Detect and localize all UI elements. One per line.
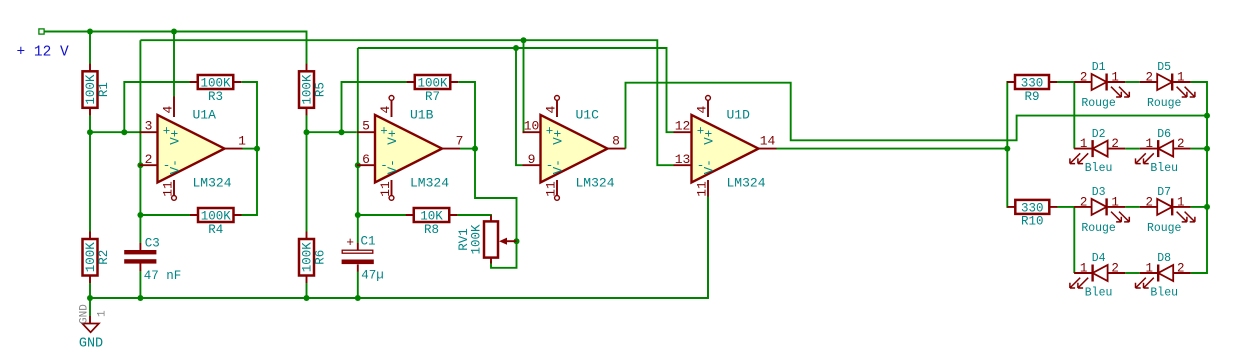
wire R10 left drop: [1007, 149, 1008, 207]
LED D4 Bleu: [1070, 252, 1125, 299]
svg-text:1: 1: [1111, 195, 1119, 209]
resistor R7 100K: [407, 75, 459, 104]
svg-text:Rouge: Rouge: [1147, 97, 1182, 110]
svg-text:Bleu: Bleu: [1085, 286, 1113, 299]
svg-text:2: 2: [1111, 137, 1119, 151]
junction ground/R2/GND: [87, 295, 93, 301]
junction R8/C1 node: [355, 212, 361, 218]
svg-text:11: 11: [378, 181, 393, 197]
LED D3 Rouge: [1074, 186, 1129, 235]
wire D1-D5 row1: [1125, 81, 1140, 83]
node +12V unconnected-end square: [39, 29, 44, 34]
svg-text:5: 5: [362, 119, 370, 134]
svg-text:+: +: [346, 235, 354, 250]
junction R1/R2/pin3: [87, 129, 93, 135]
LED D1 Rouge: [1074, 61, 1129, 110]
svg-text:D1: D1: [1092, 61, 1106, 74]
svg-text:6: 6: [362, 152, 370, 167]
svg-text:R6: R6: [314, 250, 328, 265]
svg-text:1: 1: [1080, 137, 1088, 151]
svg-text:4: 4: [544, 106, 559, 114]
junction net rail B to U1C pin9: [513, 45, 519, 51]
svg-text:100K: 100K: [84, 242, 98, 273]
svg-text:R2: R2: [97, 250, 111, 265]
wire U1B output pin7: [460, 148, 475, 150]
svg-text:2: 2: [1177, 262, 1185, 276]
wire R8 right to RV1 top: [457, 215, 491, 216]
svg-text:D6: D6: [1157, 128, 1171, 141]
svg-text:1: 1: [1111, 71, 1119, 85]
svg-text:R3: R3: [208, 90, 223, 104]
svg-text:U1B: U1B: [410, 107, 434, 122]
wire U1D output to R9/R10 node: [777, 148, 1008, 150]
junction RV1 wiper: [514, 238, 520, 244]
wire rail B drop to U1C pin9: [516, 48, 523, 165]
junction U1B output: [472, 146, 478, 152]
wire R6 bottom: [306, 283, 308, 298]
wire LED right vertical bus: [1191, 82, 1207, 273]
svg-text:330: 330: [1021, 201, 1044, 215]
svg-text:R8: R8: [424, 223, 439, 237]
svg-text:R5: R5: [314, 82, 328, 97]
junction R7/pin5: [339, 129, 345, 135]
resistor R4 100K: [190, 208, 242, 237]
svg-text:V+: V+: [703, 130, 717, 145]
svg-text:100K: 100K: [417, 77, 448, 91]
svg-text:7: 7: [456, 134, 464, 149]
svg-text:D7: D7: [1157, 186, 1171, 199]
svg-text:C3: C3: [145, 236, 160, 250]
svg-text:+ 12 V: + 12 V: [17, 45, 70, 61]
svg-text:100K: 100K: [84, 74, 98, 105]
svg-text:D5: D5: [1157, 61, 1171, 74]
wire R10 to D3: [1057, 206, 1074, 208]
op-amp U1D LM324: [674, 96, 777, 197]
wire R2 top: [89, 132, 91, 231]
svg-text:13: 13: [675, 152, 691, 167]
svg-text:LM324: LM324: [193, 175, 232, 190]
wire U1A pin2 node vertical / net rail A: [140, 40, 673, 165]
wire pin2 node down to C3: [139, 40, 141, 243]
wire +12V top rail to R5 top: [44, 32, 306, 65]
resistor R3 100K: [190, 75, 242, 104]
junction +12V/R1: [87, 29, 93, 35]
junction U1A output: [254, 146, 260, 152]
svg-text:Rouge: Rouge: [1081, 222, 1116, 235]
junction ground/C1: [355, 295, 361, 301]
svg-text:330: 330: [1021, 77, 1044, 91]
svg-text:1: 1: [238, 134, 246, 149]
wire R7 right to U1B output: [458, 82, 475, 149]
svg-text:R9: R9: [1024, 90, 1039, 104]
svg-text:1: 1: [1177, 71, 1185, 85]
junction ground/C3: [137, 295, 143, 301]
svg-text:V+: V+: [169, 130, 183, 145]
resistor R9 330: [1007, 75, 1057, 104]
svg-text:1: 1: [97, 310, 109, 317]
svg-text:2: 2: [145, 152, 153, 167]
wire R9 to D1: [1057, 81, 1074, 83]
svg-text:2: 2: [1145, 71, 1153, 85]
LED D6 Bleu: [1136, 128, 1191, 175]
svg-text:V-: V-: [169, 159, 183, 174]
wire D3-D7 row3: [1125, 206, 1140, 208]
svg-text:V-: V-: [552, 159, 566, 174]
resistor R10 330: [1007, 200, 1057, 229]
wire D6 to bus: [1191, 148, 1207, 150]
wire R2 bottom to ground rail: [89, 283, 91, 298]
svg-text:100K: 100K: [301, 74, 315, 105]
junction pin2: [137, 162, 143, 168]
svg-text:2: 2: [1111, 262, 1119, 276]
wire R4 left: [140, 214, 190, 216]
op-amp U1A LM324: [140, 97, 247, 201]
svg-text:Bleu: Bleu: [1150, 162, 1178, 175]
svg-text:9: 9: [528, 152, 536, 167]
svg-text:4: 4: [161, 106, 176, 114]
svg-text:U1A: U1A: [193, 107, 217, 122]
svg-text:LM324: LM324: [576, 175, 615, 190]
wire R9 left drop: [1007, 82, 1008, 149]
svg-text:R7: R7: [425, 90, 440, 104]
svg-text:Bleu: Bleu: [1085, 162, 1113, 175]
potentiometer RV1 100K: [457, 215, 517, 263]
wire D3 row3 to D4 row4 left vertical: [1073, 207, 1075, 273]
resistor R8 10K: [406, 208, 458, 237]
op-amp U1C LM324: [523, 96, 626, 201]
svg-text:100K: 100K: [201, 210, 232, 224]
svg-text:LM324: LM324: [410, 175, 449, 190]
ground rail: [90, 196, 708, 298]
svg-text:V+: V+: [386, 130, 400, 145]
wire R3 left to pin3 node: [124, 82, 190, 132]
svg-text:U1D: U1D: [727, 107, 751, 122]
svg-text:2: 2: [1080, 71, 1088, 85]
wire U1B pin6 node / net rail B: [358, 48, 674, 132]
svg-text:10: 10: [524, 119, 540, 134]
svg-text:4: 4: [378, 106, 393, 114]
wire R6 top: [306, 132, 308, 231]
junction R4/C3 node: [137, 212, 143, 218]
svg-text:100K: 100K: [470, 224, 484, 255]
junction bus/row2: [1204, 146, 1210, 152]
LED D2 Bleu: [1070, 128, 1125, 175]
svg-text:GND: GND: [79, 337, 103, 352]
junction bus/row3: [1204, 204, 1210, 210]
svg-text:1: 1: [1145, 137, 1153, 151]
svg-text:4: 4: [695, 106, 710, 114]
svg-text:Rouge: Rouge: [1081, 97, 1116, 110]
svg-text:1: 1: [1145, 262, 1153, 276]
svg-text:V+: V+: [552, 130, 566, 145]
junction R3/pin3: [121, 129, 127, 135]
wire U1B output to RV1 bottom: [475, 149, 517, 268]
svg-text:100K: 100K: [200, 77, 231, 91]
wire C1 bottom to ground rail: [357, 271, 359, 298]
svg-text:D2: D2: [1092, 128, 1106, 141]
resistor R6 100K: [299, 232, 328, 284]
svg-text:47µ: 47µ: [361, 269, 384, 283]
svg-text:12: 12: [675, 119, 691, 134]
junction ground/R6: [304, 295, 310, 301]
svg-text:GND: GND: [79, 304, 91, 324]
svg-text:10K: 10K: [420, 210, 443, 224]
svg-text:Rouge: Rouge: [1147, 222, 1182, 235]
svg-text:V-: V-: [703, 159, 717, 174]
svg-text:D3: D3: [1092, 186, 1106, 199]
wire D7 to bus: [1191, 206, 1207, 208]
svg-text:3: 3: [145, 119, 153, 134]
capacitor C1 47uF polarized: [342, 235, 384, 283]
svg-text:2: 2: [1177, 137, 1185, 151]
capacitor C3 47nF: [124, 236, 181, 283]
svg-text:47 nF: 47 nF: [144, 269, 182, 283]
resistor R5 100K: [299, 64, 328, 116]
LED D8 Bleu: [1136, 252, 1191, 299]
svg-text:1: 1: [1177, 195, 1185, 209]
junction net rail A to U1C pin10: [521, 37, 527, 43]
wire U1A pin4 to +12V rail: [173, 32, 175, 98]
junction pin6: [355, 162, 361, 168]
wire D4-D8 row4: [1125, 272, 1140, 274]
wire R1 bottom to U1A pin3: [90, 115, 140, 132]
junction +12V/U1A pin4: [171, 29, 177, 35]
op-amp U1B LM324: [357, 96, 463, 201]
wire R7 left to pin5 node: [342, 82, 408, 132]
wire C3 bottom to ground rail: [139, 271, 141, 298]
svg-text:R10: R10: [1021, 215, 1044, 229]
resistor R2 100K: [83, 232, 112, 284]
svg-text:2: 2: [1145, 195, 1153, 209]
junction U1D output: [1004, 146, 1010, 152]
svg-text:Bleu: Bleu: [1150, 286, 1178, 299]
LED D7 Rouge: [1140, 186, 1195, 235]
junction bus/U1C line: [1204, 113, 1210, 119]
ground symbol GND: [79, 298, 109, 352]
svg-text:U1C: U1C: [576, 107, 600, 122]
wire U1D pin11 to ground rail: [707, 196, 709, 298]
wire R5 bottom to U1B pin5: [307, 115, 357, 132]
svg-text:LM324: LM324: [727, 175, 766, 190]
wire R1 top: [89, 32, 91, 65]
resistor R1 100K: [83, 64, 112, 116]
wire R3 right to U1A output: [241, 82, 257, 215]
svg-text:1: 1: [1080, 262, 1088, 276]
junction R5/R6/pin5: [304, 129, 310, 135]
svg-text:R1: R1: [97, 82, 111, 97]
svg-text:14: 14: [760, 134, 776, 149]
svg-text:11: 11: [695, 181, 710, 197]
svg-text:V-: V-: [386, 159, 400, 174]
wire U1A output pin1: [243, 148, 258, 150]
wire U1C output to LED block: [626, 83, 1208, 149]
wire D1 row1 to D2 row2 left vertical: [1073, 82, 1075, 149]
svg-text:8: 8: [612, 134, 620, 149]
svg-text:2: 2: [1080, 195, 1088, 209]
svg-text:11: 11: [161, 181, 176, 197]
wire pin6 node down to C1: [357, 48, 359, 243]
LED D5 Rouge: [1140, 61, 1195, 110]
wire rail A drop to U1C pin10: [523, 40, 524, 132]
wire D2-D6 row2: [1125, 148, 1140, 150]
wire R8 left: [358, 214, 406, 216]
svg-text:D4: D4: [1092, 252, 1106, 265]
svg-text:100K: 100K: [301, 242, 315, 273]
svg-text:11: 11: [544, 181, 559, 197]
svg-text:D8: D8: [1157, 252, 1171, 265]
svg-text:C1: C1: [361, 235, 376, 249]
svg-text:R4: R4: [208, 223, 223, 237]
